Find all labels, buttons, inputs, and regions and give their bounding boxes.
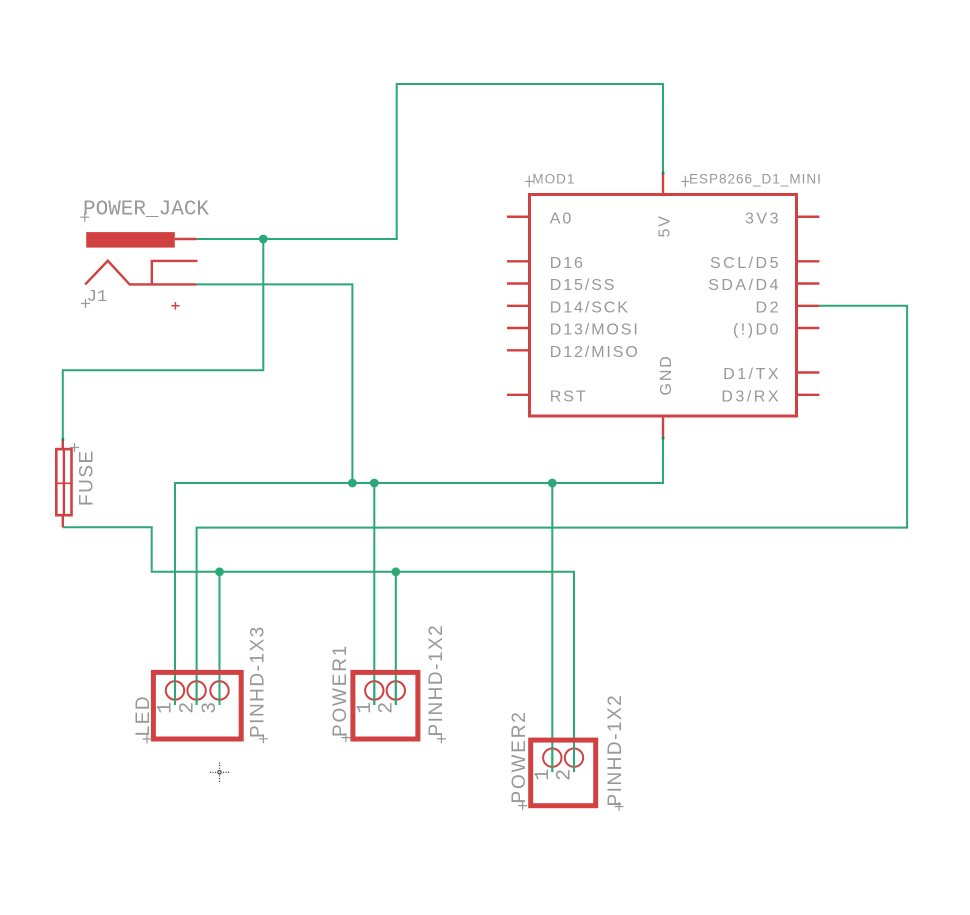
pin GND bottom stub bbox=[662, 418, 664, 439]
junction dot node 5V bbox=[259, 235, 268, 244]
fuse bottom pin stub bbox=[62, 515, 64, 527]
POWER2 pin 2 circle bbox=[565, 749, 583, 767]
connector J1 switch contact bbox=[152, 261, 198, 285]
svg-text:POWER2: POWER2 bbox=[509, 710, 530, 803]
svg-text:(!)D0: (!)D0 bbox=[733, 322, 781, 339]
svg-text:SDA/D4: SDA/D4 bbox=[708, 277, 781, 294]
junction dot GND rail at jack branch bbox=[348, 479, 357, 488]
svg-text:POWER_JACK: POWER_JACK bbox=[83, 199, 209, 222]
pin D3/RX stub bbox=[798, 394, 819, 396]
connector LED PINHD-1X3 body bbox=[153, 672, 241, 739]
wire net VFUSED: branch to POWER1 pin2 bbox=[395, 572, 397, 705]
module MOD1 ESP8266_D1_MINI body bbox=[530, 195, 797, 417]
anchor cross POWER_JACK bbox=[80, 213, 89, 222]
pin 3V3 stub bbox=[798, 216, 819, 218]
pin (!)D0 stub bbox=[798, 327, 819, 329]
pin D13/MOSI stub bbox=[507, 327, 528, 329]
pin 5V top stub bbox=[662, 173, 664, 193]
fuse F1 body bbox=[56, 449, 71, 515]
svg-text:PINHD-1X2: PINHD-1X2 bbox=[605, 694, 626, 807]
anchor cross LED bbox=[143, 735, 152, 744]
POWER1 pin 1 circle bbox=[365, 681, 383, 699]
anchor cross PINHD-1X2 POWER2 bbox=[615, 802, 624, 811]
svg-text:ESP8266_D1_MINI: ESP8266_D1_MINI bbox=[689, 172, 822, 187]
anchor cross ESP8266_D1_MINI bbox=[681, 176, 689, 187]
svg-text:POWER1: POWER1 bbox=[330, 644, 351, 737]
svg-text:SCL/D5: SCL/D5 bbox=[710, 255, 781, 272]
pin D1/TX stub bbox=[798, 371, 819, 373]
POWER2 pin 1 circle bbox=[543, 749, 561, 767]
anchor cross J1 bbox=[81, 299, 90, 308]
anchor cross PINHD-1X2 POWER1 bbox=[437, 734, 446, 743]
svg-text:LED: LED bbox=[133, 695, 154, 736]
wire net GND: jack pin2 to GND rail bbox=[197, 284, 353, 483]
svg-text:D16: D16 bbox=[550, 255, 585, 272]
pin D12/MISO stub bbox=[507, 349, 528, 351]
svg-text:3V3: 3V3 bbox=[745, 211, 781, 228]
svg-text:D13/MOSI: D13/MOSI bbox=[550, 322, 640, 339]
svg-text:PINHD-1X3: PINHD-1X3 bbox=[248, 625, 269, 738]
svg-text:D1/TX: D1/TX bbox=[723, 366, 781, 383]
anchor cross PINHD-1X3 bbox=[259, 734, 268, 743]
svg-text:D15/SS: D15/SS bbox=[550, 277, 617, 294]
pin A0 stub bbox=[507, 216, 528, 218]
wire overlays into POWER2 pins bbox=[551, 748, 553, 772]
connector POWER1 PINHD-1X2 body bbox=[353, 672, 418, 739]
svg-text:D2: D2 bbox=[756, 300, 781, 317]
junction dot GND rail at POWER1 branch bbox=[370, 479, 379, 488]
connector POWER2 PINHD-1X2 body bbox=[531, 740, 596, 806]
wire overlays into LED pins bbox=[174, 681, 176, 705]
fuse element line bbox=[63, 449, 65, 515]
pin-wire joint mark 5V bbox=[662, 172, 665, 175]
POWER1 pin 2 circle bbox=[387, 681, 405, 699]
svg-text:RST: RST bbox=[550, 389, 588, 406]
pin-wire joint mark fuse top bbox=[62, 438, 65, 441]
wire net VFUSED: branch to LED pin3 bbox=[219, 572, 221, 705]
pin D16 stub bbox=[507, 260, 528, 262]
svg-text:D12/MISO: D12/MISO bbox=[550, 344, 640, 361]
pin D14/SCK stub bbox=[507, 305, 528, 307]
wire net 5V: junction drop to fuse top bbox=[63, 239, 263, 440]
svg-text:GND: GND bbox=[658, 354, 675, 395]
svg-text:MOD1: MOD1 bbox=[532, 172, 575, 187]
anchor cross MOD1 bbox=[525, 176, 533, 187]
connector J1 POWER_JACK sleeve bar bbox=[86, 232, 175, 248]
svg-text:5V: 5V bbox=[657, 214, 674, 237]
wire net D2: module D2 pin to LED pin2 bbox=[197, 306, 908, 705]
wire net 5V: jack pin1 to module 5V top pin bbox=[197, 84, 664, 239]
pin-wire joint mark GND bbox=[662, 437, 665, 440]
LED pin 1 circle bbox=[166, 681, 184, 699]
connector J1 origin cross bbox=[171, 302, 179, 310]
wire net GND: branch to POWER1 pin1 bbox=[373, 483, 375, 705]
pin D2 stub bbox=[798, 305, 819, 307]
svg-text:A0: A0 bbox=[550, 211, 573, 228]
pin RST stub bbox=[507, 394, 528, 396]
fuse origin cross bbox=[57, 476, 71, 490]
sheet origin dotted crosshair bbox=[210, 763, 230, 783]
anchor cross FUSE bbox=[70, 443, 79, 452]
connector J1 pin 1 stub bbox=[175, 238, 197, 240]
svg-text:D3/RX: D3/RX bbox=[721, 389, 781, 406]
junction dot VFUSED rail at POWER1 branch bbox=[391, 567, 400, 576]
junction dot GND rail at POWER2 branch bbox=[548, 479, 557, 488]
LED pin 2 circle bbox=[187, 681, 205, 699]
wire net GND: module GND pin to rail and LED pin1 bbox=[175, 438, 663, 705]
LED pin 3 circle bbox=[210, 681, 228, 699]
pin SCL/D5 stub bbox=[798, 260, 819, 262]
pin SDA/D4 stub bbox=[798, 282, 819, 284]
anchor cross POWER1 bbox=[341, 733, 350, 742]
anchor cross POWER2 bbox=[518, 801, 527, 810]
connector J1 tip spring contact bbox=[85, 261, 196, 285]
wire net VFUSED: fuse bottom to POWER2 pin2 bbox=[63, 527, 574, 772]
wire net GND: branch to POWER2 pin1 bbox=[551, 483, 553, 772]
wire overlays into POWER1 pins bbox=[373, 681, 375, 705]
junction dot VFUSED rail at LED branch bbox=[215, 567, 224, 576]
svg-text:FUSE: FUSE bbox=[77, 449, 98, 506]
svg-text:D14/SCK: D14/SCK bbox=[550, 300, 630, 317]
pin D15/SS stub bbox=[507, 282, 528, 284]
svg-text:PINHD-1X2: PINHD-1X2 bbox=[426, 624, 447, 737]
fuse top pin stub bbox=[62, 440, 64, 450]
